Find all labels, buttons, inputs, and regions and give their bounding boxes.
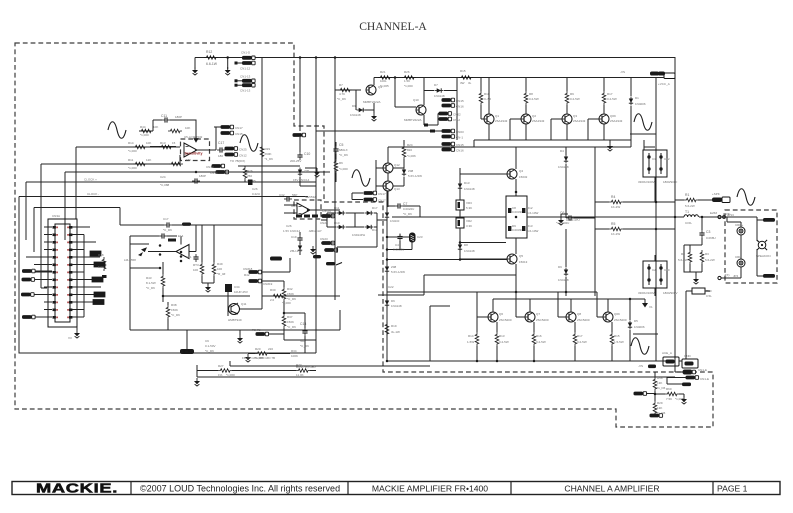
capacitor C2 bbox=[648, 264, 650, 285]
connector CN-2 pill bbox=[439, 117, 452, 121]
wire bbox=[248, 353, 290, 355]
resistor R15 bbox=[459, 76, 473, 80]
wire clock bus 1 bbox=[75, 147, 77, 219]
svg-text:CN02: CN02 bbox=[453, 113, 461, 117]
diode matrix row1 bbox=[337, 211, 346, 215]
ground bbox=[192, 67, 198, 75]
component small sq bbox=[102, 275, 107, 278]
wire bbox=[262, 296, 340, 309]
ground bbox=[607, 143, 613, 151]
svg-text:CHANNEL A AMPLIFIER: CHANNEL A AMPLIFIER bbox=[564, 484, 659, 494]
thermistor loop wires bbox=[387, 233, 412, 250]
connector CN02 pill bbox=[439, 112, 452, 116]
svg-text:D8: D8 bbox=[464, 243, 468, 247]
wire bbox=[551, 78, 567, 141]
diode D9c in box bbox=[508, 226, 511, 231]
svg-text:2SC5200: 2SC5200 bbox=[614, 318, 627, 322]
wire bbox=[315, 58, 317, 354]
opamp U4 LM1558 (points left) bbox=[176, 245, 189, 259]
junction bbox=[386, 248, 389, 251]
svg-text:1N4148: 1N4148 bbox=[558, 278, 569, 282]
transistor Q4 bbox=[507, 169, 517, 179]
svg-text:CN14: CN14 bbox=[206, 165, 214, 169]
svg-text:R29: R29 bbox=[265, 147, 271, 151]
svg-text:*1_D6: *1_D6 bbox=[265, 157, 274, 161]
svg-text:220: 220 bbox=[268, 347, 273, 351]
resistor R13 v bbox=[495, 332, 499, 346]
svg-text:10K: 10K bbox=[146, 141, 151, 145]
wire bbox=[476, 346, 478, 361]
svg-text:0.2-5W: 0.2-5W bbox=[577, 340, 587, 344]
svg-text:10UP-25V: 10UP-25V bbox=[234, 290, 248, 294]
svg-text:1.5K: 1.5K bbox=[404, 79, 410, 83]
svg-text:R21: R21 bbox=[380, 70, 386, 74]
svg-text:*1 0.032U: *1 0.032U bbox=[556, 221, 569, 225]
svg-text:CN-2: CN-2 bbox=[453, 118, 460, 122]
transistor Q5 bbox=[507, 254, 517, 264]
svg-text:MACKIE.: MACKIE. bbox=[36, 481, 118, 496]
svg-text:4.7K: 4.7K bbox=[339, 92, 345, 96]
junction bbox=[533, 360, 536, 363]
junction bbox=[159, 267, 162, 270]
resistor R21 bbox=[378, 76, 392, 80]
svg-text:R3: R3 bbox=[705, 252, 709, 256]
connector CN1-E pill2 bbox=[686, 376, 699, 380]
wire bbox=[460, 147, 516, 196]
junction bbox=[394, 76, 397, 79]
transistor Q10 bbox=[416, 105, 426, 115]
junction bbox=[195, 171, 198, 174]
svg-text:C24: C24 bbox=[160, 175, 166, 179]
svg-text:*C_D6: *C_D6 bbox=[163, 228, 172, 232]
wire bbox=[424, 78, 457, 141]
capacitor C3 zobel bbox=[699, 230, 704, 238]
svg-text:C10: C10 bbox=[664, 268, 670, 272]
svg-text:150K: 150K bbox=[171, 308, 178, 312]
diode D12 bbox=[385, 211, 389, 220]
trimmer VR2 bbox=[456, 218, 464, 228]
wire collector up bbox=[374, 78, 457, 86]
svg-text:1N4148: 1N4148 bbox=[558, 165, 569, 169]
svg-text:1.5-5W: 1.5-5W bbox=[614, 340, 624, 344]
junction bbox=[180, 255, 183, 258]
resistor R15b v bbox=[610, 332, 614, 346]
svg-text:*C_D6: *C_D6 bbox=[287, 297, 296, 301]
svg-text:1N4148: 1N4148 bbox=[350, 113, 361, 117]
svg-text:R42: R42 bbox=[244, 273, 250, 277]
transistor Q3 bbox=[562, 114, 572, 124]
svg-text:C26: C26 bbox=[286, 224, 292, 228]
capacitor C10b bbox=[660, 264, 662, 285]
svg-text:D10: D10 bbox=[334, 221, 340, 225]
svg-text:E14: E14 bbox=[178, 234, 184, 238]
svg-text:3L: 3L bbox=[468, 81, 472, 85]
svg-text:3.3K: 3.3K bbox=[466, 224, 472, 228]
svg-text:Q3: Q3 bbox=[573, 114, 577, 118]
wire bbox=[239, 330, 241, 335]
wire bbox=[393, 177, 404, 186]
diode matrix row2b bbox=[365, 225, 374, 229]
wire bbox=[236, 84, 242, 86]
wire bbox=[25, 182, 27, 240]
svg-text:C32: C32 bbox=[279, 193, 285, 197]
ground mid bbox=[558, 217, 564, 225]
wire bbox=[611, 346, 613, 361]
svg-text:0.0033U: 0.0033U bbox=[512, 228, 523, 232]
svg-text:C3: C3 bbox=[706, 230, 710, 234]
diode matrix row1b bbox=[365, 211, 374, 215]
svg-text:*1,000: *1,000 bbox=[140, 133, 149, 137]
wire bbox=[630, 78, 632, 141]
relay contact box2 bbox=[682, 359, 698, 368]
svg-text:CRL: CRL bbox=[735, 255, 741, 259]
wire bbox=[324, 249, 337, 251]
svg-text:Q09: Q09 bbox=[614, 312, 620, 316]
base return bus bbox=[481, 119, 489, 140]
svg-text:1-5W: 1-5W bbox=[467, 340, 474, 344]
relay contact box1 bbox=[663, 357, 679, 366]
svg-text:CN1:12: CN1:12 bbox=[240, 67, 251, 71]
transistor Q2 bbox=[521, 114, 531, 124]
svg-text:JP13: JP13 bbox=[727, 213, 734, 217]
svg-text:-VS: -VS bbox=[620, 70, 625, 74]
wire bbox=[76, 327, 78, 330]
svg-text:R43: R43 bbox=[146, 276, 152, 280]
wire feedback loop bbox=[139, 120, 196, 139]
svg-text:©2007 LOUD Technologies Inc. A: ©2007 LOUD Technologies Inc. All rights … bbox=[140, 484, 340, 494]
svg-text:*R_0#: *R_0# bbox=[217, 272, 226, 276]
svg-text:R60: R60 bbox=[666, 387, 672, 391]
blk sq bbox=[430, 130, 435, 133]
ground bbox=[225, 67, 231, 75]
svg-text:5.6-10W: 5.6-10W bbox=[527, 211, 539, 215]
wire bbox=[686, 291, 710, 359]
resistor R58 v bbox=[653, 377, 657, 391]
svg-text:CN1-D: CN1-D bbox=[241, 51, 251, 55]
wire vertical rail2 bbox=[655, 78, 657, 362]
svg-text:R7: R7 bbox=[339, 83, 343, 87]
svg-text:CN#18: CN#18 bbox=[243, 267, 253, 271]
connector CN17a pill bbox=[364, 191, 377, 195]
svg-text:R14: R14 bbox=[128, 141, 134, 145]
ground bbox=[693, 276, 699, 284]
svg-text:100: 100 bbox=[217, 267, 222, 271]
outer dashed boundary bbox=[15, 43, 713, 427]
svg-text:Q10: Q10 bbox=[413, 98, 419, 102]
svg-text:0.22U: 0.22U bbox=[252, 192, 260, 196]
svg-text:R9: R9 bbox=[570, 92, 574, 96]
svg-text:PAGE 1: PAGE 1 bbox=[717, 484, 748, 494]
svg-text:MACKIE AMPLIFIER FR•1400: MACKIE AMPLIFIER FR•1400 bbox=[372, 484, 488, 494]
wire bbox=[186, 330, 188, 349]
svg-text:C6: C6 bbox=[560, 211, 564, 215]
svg-text:NE5532: NE5532 bbox=[305, 195, 316, 199]
wire bbox=[481, 78, 489, 141]
rail bbox=[387, 259, 507, 261]
connector pins left bbox=[53, 226, 56, 319]
svg-text:*C_D6: *C_D6 bbox=[403, 212, 412, 216]
connector CN17 bbox=[221, 125, 234, 129]
junction bbox=[180, 251, 183, 254]
capacitor C4 bbox=[397, 234, 402, 242]
svg-text:5.6V-1/2W: 5.6V-1/2W bbox=[408, 174, 422, 178]
resistor R16b v bbox=[532, 332, 536, 346]
svg-text:13K: 13K bbox=[657, 381, 662, 385]
sine symbol out-lower bbox=[631, 338, 649, 355]
wire bbox=[130, 268, 340, 330]
svg-text:15K: 15K bbox=[186, 158, 191, 162]
svg-text:250: 250 bbox=[247, 174, 252, 178]
svg-text:15013: 15013 bbox=[519, 260, 528, 264]
ground bbox=[74, 330, 80, 338]
svg-text:*C_D6: *C_D6 bbox=[287, 325, 296, 329]
svg-text:Z08: Z08 bbox=[408, 169, 414, 173]
capacitor C8 in box bbox=[508, 208, 511, 213]
connector CN15 bbox=[221, 131, 234, 135]
svg-text:*C_D6: *C_D6 bbox=[205, 349, 214, 353]
svg-text:0.0033U: 0.0033U bbox=[512, 210, 523, 214]
wire bbox=[41, 208, 47, 289]
svg-text:180P: 180P bbox=[175, 115, 182, 119]
connector pill left D bbox=[22, 315, 35, 319]
wire bbox=[197, 370, 296, 372]
svg-text:*C_D6: *C_D6 bbox=[171, 313, 180, 317]
svg-text:R4: R4 bbox=[611, 195, 615, 199]
connector CN1-13 bbox=[242, 79, 255, 83]
svg-text:150K: 150K bbox=[287, 292, 294, 296]
sine symbol 3 bbox=[352, 170, 370, 187]
connector CN-24 bbox=[322, 214, 335, 218]
svg-text:CN16: CN16 bbox=[456, 105, 464, 109]
connector CN1-12 bbox=[242, 56, 255, 60]
capacitor C13 bbox=[302, 328, 307, 336]
svg-text:100K: 100K bbox=[291, 354, 298, 358]
svg-text:CN1-E: CN1-E bbox=[698, 368, 707, 372]
blk sq bbox=[424, 124, 428, 127]
connector CN14 bbox=[212, 164, 225, 168]
svg-text:0.5L: 0.5L bbox=[706, 294, 712, 298]
connector pill left C bbox=[21, 293, 34, 297]
svg-text:180P: 180P bbox=[199, 174, 206, 178]
svg-text:D7: D7 bbox=[434, 83, 438, 87]
wire vertical rail bbox=[594, 147, 596, 296]
resistor R12b in box bbox=[522, 208, 525, 213]
svg-text:R14: R14 bbox=[468, 334, 474, 338]
wire bbox=[757, 220, 763, 276]
junction bbox=[386, 258, 389, 261]
pin marks red bbox=[56, 227, 69, 319]
svg-text:V3: V3 bbox=[68, 336, 72, 340]
connector CN12 bbox=[225, 153, 238, 157]
resistor R26 vertical bbox=[243, 166, 247, 180]
svg-text:5.3K: 5.3K bbox=[466, 206, 472, 210]
resistor R12 bbox=[204, 56, 218, 60]
wire bbox=[202, 236, 214, 285]
svg-text:CLOCK +: CLOCK + bbox=[84, 178, 97, 182]
capacitor C26 bbox=[248, 180, 253, 186]
transistor Q9b bbox=[603, 312, 613, 322]
svg-text:*C_D6: *C_D6 bbox=[339, 153, 348, 157]
svg-text:Q4: Q4 bbox=[519, 169, 523, 173]
wire bbox=[120, 224, 150, 226]
svg-text:+SPK: +SPK bbox=[712, 192, 720, 196]
svg-text:2SA1943: 2SA1943 bbox=[573, 119, 586, 123]
svg-text:0.068U: 0.068U bbox=[706, 236, 716, 240]
wire bbox=[335, 142, 337, 182]
resistor R38 v bbox=[166, 305, 170, 319]
-VS pills bbox=[650, 72, 659, 76]
wire bbox=[299, 232, 301, 255]
svg-text:R44: R44 bbox=[140, 125, 146, 129]
svg-text:R15: R15 bbox=[460, 69, 466, 73]
resistor R29 on main vertical bbox=[260, 145, 264, 159]
wire bbox=[646, 393, 655, 395]
wire bbox=[227, 58, 229, 70]
resistor R8 v bbox=[524, 91, 528, 105]
svg-text:*C_D6: *C_D6 bbox=[337, 97, 346, 101]
svg-text:FB-7B C#D-7B8 C#D 7B: FB-7B C#D-7B8 C#D 7B bbox=[242, 356, 275, 360]
svg-text:10K: 10K bbox=[185, 126, 190, 130]
diode D1 bbox=[629, 97, 633, 106]
svg-text:R27: R27 bbox=[218, 364, 224, 368]
resistor R9 v bbox=[565, 91, 569, 105]
wire D9 column joint bbox=[565, 277, 567, 292]
wire bbox=[430, 306, 450, 361]
component pill bbox=[270, 257, 282, 261]
svg-text:.GB1/CLP: .GB1/CLP bbox=[308, 229, 322, 233]
+SPK pill bbox=[712, 198, 722, 203]
svg-text:*1_D6: *1_D6 bbox=[657, 386, 666, 390]
svg-text:MMBT2222A: MMBT2222A bbox=[363, 100, 381, 104]
wire bbox=[459, 168, 461, 252]
diode D6b bbox=[385, 299, 389, 308]
svg-text:Q13: Q13 bbox=[394, 187, 400, 191]
ground bbox=[371, 113, 377, 121]
wire bbox=[651, 77, 664, 79]
junction bbox=[226, 56, 229, 59]
wire bbox=[76, 146, 180, 148]
divider bbox=[712, 482, 714, 495]
component box right C bbox=[92, 277, 103, 282]
transistor Q7 bbox=[525, 312, 535, 322]
ground bbox=[314, 169, 320, 177]
resistor R13b in box bbox=[522, 226, 525, 231]
wire bank outline bbox=[460, 140, 631, 147]
wire bbox=[261, 58, 263, 297]
wire bbox=[284, 205, 340, 213]
svg-text:R12: R12 bbox=[206, 50, 212, 54]
svg-text:COIL: COIL bbox=[685, 221, 692, 225]
svg-text:R20: R20 bbox=[255, 347, 261, 351]
svg-text:CN#19: CN#19 bbox=[263, 282, 273, 286]
resistor R26b bbox=[402, 76, 416, 80]
svg-text:CN17: CN17 bbox=[235, 126, 243, 130]
wire bbox=[352, 193, 363, 200]
svg-text:1.5V 1N/C14: 1.5V 1N/C14 bbox=[283, 229, 301, 233]
svg-text:*1,006: *1,006 bbox=[407, 154, 416, 158]
svg-text:690K: 690K bbox=[265, 152, 272, 156]
svg-text:0.0022U: 0.0022U bbox=[403, 207, 414, 211]
svg-text:MMBT2222A: MMBT2222A bbox=[404, 118, 422, 122]
zener D19 bbox=[298, 244, 302, 253]
inductor T1 COIL bbox=[684, 215, 698, 217]
connector CN16b pill bbox=[442, 148, 455, 152]
svg-text:CN-1: CN-1 bbox=[456, 136, 463, 140]
svg-text:RT3: RT3 bbox=[193, 263, 199, 267]
wire bbox=[561, 214, 568, 217]
junction bbox=[515, 191, 518, 194]
svg-text:6.9K: 6.9K bbox=[98, 265, 104, 269]
svg-text:CRD+: CRD+ bbox=[735, 223, 743, 227]
connector pill bottom bbox=[650, 414, 663, 418]
svg-text:0.2-5W: 0.2-5W bbox=[529, 97, 539, 101]
small pills under opamp bbox=[296, 215, 302, 218]
wire bbox=[35, 270, 52, 272]
wire bbox=[130, 236, 177, 268]
svg-text:7.5K: 7.5K bbox=[666, 397, 672, 401]
resistor R4 bbox=[609, 200, 623, 204]
wire bbox=[565, 229, 567, 296]
wire bbox=[566, 147, 595, 202]
diode D5 bbox=[628, 321, 632, 330]
wire bbox=[334, 58, 336, 301]
svg-text:C5: C5 bbox=[339, 143, 343, 147]
connector pill left B bbox=[22, 278, 35, 282]
svg-text:Q09: Q09 bbox=[610, 114, 616, 118]
svg-text:Q1: Q1 bbox=[495, 114, 499, 118]
underline bbox=[630, 133, 656, 135]
wire bbox=[654, 372, 656, 401]
svg-text:150K: 150K bbox=[287, 320, 294, 324]
resistor R11 bbox=[133, 162, 147, 166]
svg-text:V1: V1 bbox=[649, 305, 653, 309]
resistor R37 v bbox=[282, 314, 286, 328]
svg-text:Q8: Q8 bbox=[577, 312, 581, 316]
connector CN1-E pill bbox=[683, 370, 696, 374]
resistor R43 v bbox=[161, 274, 165, 288]
ground bbox=[205, 284, 211, 292]
svg-text:CN15: CN15 bbox=[456, 143, 464, 147]
capacitor C1 bbox=[648, 153, 650, 174]
svg-text:R34: R34 bbox=[291, 349, 297, 353]
collector bus end arrow bbox=[642, 303, 648, 308]
connector CN15b pill bbox=[442, 142, 455, 146]
svg-text:D17: D17 bbox=[372, 206, 378, 210]
component box right A bbox=[90, 251, 101, 256]
diode D9b bbox=[564, 268, 568, 277]
svg-text:1%: 1% bbox=[218, 373, 223, 377]
junction bbox=[386, 360, 389, 363]
ground bbox=[245, 354, 251, 362]
svg-text:Q6: Q6 bbox=[499, 312, 503, 316]
wire bbox=[496, 346, 498, 361]
wire bbox=[238, 166, 300, 182]
wire zobel loop bbox=[684, 245, 702, 276]
diode D4 bbox=[564, 155, 568, 164]
svg-text:15V 1N/C14: 15V 1N/C14 bbox=[293, 178, 310, 182]
wire bbox=[240, 308, 262, 310]
svg-text:R15: R15 bbox=[614, 334, 620, 338]
wire long loop bbox=[65, 172, 330, 240]
connector CN1-12 pin bbox=[242, 61, 255, 65]
component box right E bbox=[93, 300, 104, 305]
wire bbox=[701, 217, 703, 245]
svg-text:0.2-5W: 0.2-5W bbox=[607, 97, 617, 101]
svg-text:C11: C11 bbox=[161, 114, 167, 118]
junction bbox=[515, 216, 518, 219]
junction bbox=[180, 260, 183, 263]
svg-text:Q5: Q5 bbox=[519, 254, 523, 258]
